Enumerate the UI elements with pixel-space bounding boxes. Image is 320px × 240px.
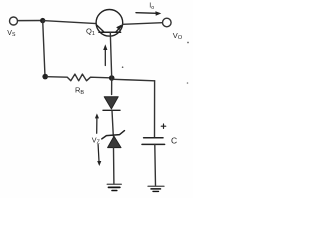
speck xyxy=(122,66,124,68)
capacitor C xyxy=(142,138,165,145)
wire node C to capacitor branch xyxy=(114,79,155,81)
svg-text:VO: VO xyxy=(173,31,183,41)
svg-text:Q1: Q1 xyxy=(86,27,95,37)
terminal VS xyxy=(10,17,18,25)
zener diode VZ xyxy=(102,131,125,148)
wire Q1 base down to node C xyxy=(110,32,111,77)
wire zener to ground xyxy=(113,148,115,184)
svg-text:VZ: VZ xyxy=(92,136,101,146)
wire VS to node A xyxy=(18,20,43,22)
node C junction (base node) xyxy=(109,75,115,81)
wire node A down to node B xyxy=(43,21,45,77)
base current arrow xyxy=(103,44,107,65)
plus sign xyxy=(161,124,165,128)
wire D1 to zener xyxy=(112,111,113,137)
transistor Q1 xyxy=(96,9,123,36)
wire down to capacitor xyxy=(154,81,156,138)
terminal VO xyxy=(163,18,172,27)
svg-text:RB: RB xyxy=(75,86,84,97)
resistor RB xyxy=(47,74,110,81)
node A junction xyxy=(40,18,45,23)
speck xyxy=(187,82,189,84)
svg-text:VS: VS xyxy=(7,30,16,38)
diode D1 xyxy=(103,97,120,111)
ground (capacitor) xyxy=(148,186,164,191)
svg-text:Io: Io xyxy=(149,3,154,11)
output current arrow Io xyxy=(136,11,161,16)
ground (zener) xyxy=(107,184,121,190)
wire node A to Q1 collector xyxy=(43,21,97,24)
VZ annotation arrow xyxy=(95,113,101,166)
speck xyxy=(187,42,189,44)
wire capacitor to ground xyxy=(154,145,157,186)
svg-text:C: C xyxy=(171,135,177,145)
node B junction xyxy=(42,74,48,80)
wire Q1 emitter to VO xyxy=(123,23,163,25)
wire node C down to diode D1 xyxy=(111,78,113,95)
